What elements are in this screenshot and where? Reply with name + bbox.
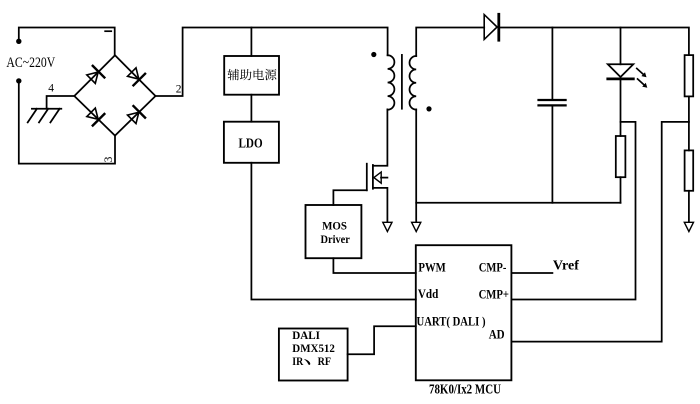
svg-text:2: 2	[176, 84, 182, 96]
diode D1 bridge upper-left	[84, 65, 105, 86]
wire MOS driver to PWM pin	[333, 258, 415, 273]
wire rail to aux supply	[250, 28, 252, 57]
bridge rectifier diamond	[74, 55, 155, 135]
svg-text:MOS: MOS	[322, 220, 347, 232]
wire rail to LED	[620, 28, 622, 65]
svg-text:3: 3	[103, 156, 115, 162]
diode D4 bridge lower-right	[125, 105, 146, 126]
wire CMP- to Vref	[511, 272, 552, 274]
transistor Q1 channel line	[372, 165, 374, 189]
svg-text:UART( DALI ): UART( DALI )	[417, 314, 486, 328]
svg-text:IR: IR	[292, 356, 304, 368]
svg-text:Vdd: Vdd	[418, 287, 438, 301]
wire R2 to gnd rail	[620, 177, 622, 203]
wire secondary top to output diode	[416, 28, 484, 57]
MCU box U1	[416, 245, 512, 380]
wire AC bottom to bridge pin 3	[19, 81, 115, 164]
resistor R3 (divider top)	[685, 55, 694, 96]
svg-text:Vref: Vref	[553, 258, 579, 273]
node AC terminal bottom	[16, 78, 21, 83]
ground (MOSFET source)	[383, 222, 392, 231]
svg-text:RF: RF	[318, 356, 331, 368]
MOS driver box U3	[306, 205, 362, 258]
DALI interface box	[279, 329, 348, 381]
svg-text:PWM: PWM	[418, 260, 445, 274]
svg-text:DMX512: DMX512	[292, 343, 335, 355]
LDO box U2	[224, 122, 279, 163]
wire gate to MOS driver	[333, 190, 366, 205]
wire diode cathode to right rail down to R1	[499, 28, 689, 56]
wire R4 to ground	[688, 191, 690, 223]
svg-text:LDO: LDO	[239, 136, 263, 151]
wire R3 to R4	[688, 96, 690, 150]
svg-text:CMP-: CMP-	[479, 260, 507, 274]
LED D6	[608, 64, 634, 77]
wire LDO to Vdd pin	[251, 163, 415, 300]
transistor Q1 gate line	[366, 164, 368, 191]
wire capacitor to gnd rail	[551, 106, 553, 203]
earth ground	[28, 109, 62, 123]
wire UART to DALI box	[348, 326, 416, 354]
LED light arrows	[637, 69, 644, 85]
transistor Q1 source to ground	[373, 188, 388, 222]
diode D2 bridge upper-right	[125, 65, 146, 86]
wire aux supply to LDO	[250, 95, 252, 122]
aux power supply box	[224, 56, 279, 95]
node secondary polarity dot	[426, 106, 431, 111]
wire bridge pin 2 to top rail and transformer primary	[156, 28, 388, 97]
node primary polarity dot	[371, 52, 376, 57]
transformer primary winding	[388, 55, 395, 109]
transistor Q1 body arrow	[381, 177, 387, 179]
transistor Q1 drain to primary	[373, 109, 388, 165]
wire secondary bottom to gnd rail	[415, 109, 417, 222]
svg-text:AC~220V: AC~220V	[6, 55, 55, 71]
label aux power supply (CJK)	[228, 69, 277, 81]
ground (secondary return)	[412, 222, 421, 231]
node AC terminal top	[16, 39, 21, 44]
pin label 1 (rotated, shows as dash)	[104, 30, 112, 32]
ground (divider)	[684, 222, 693, 231]
capacitor C1	[539, 100, 566, 105]
secondary ground rail	[416, 202, 620, 204]
svg-text:78K0/Ix2 MCU: 78K0/Ix2 MCU	[429, 382, 501, 397]
svg-text:AD: AD	[489, 328, 505, 342]
wire LED to resistor R2	[620, 79, 622, 136]
transformer secondary winding	[410, 56, 417, 110]
resistor R2 (LED sense)	[616, 136, 626, 177]
svg-text:CMP+: CMP+	[479, 288, 509, 302]
transformer core	[401, 55, 403, 109]
svg-text:DALI: DALI	[292, 330, 320, 342]
resistor R4 (divider bottom)	[685, 150, 694, 190]
wire bridge pin 4 to earth	[47, 96, 75, 109]
wire LED tap to CMP+ pin	[511, 122, 635, 300]
wire divider tap to AD pin	[511, 122, 689, 342]
svg-text:4: 4	[48, 82, 54, 94]
diode D5 output rectifier	[484, 15, 497, 40]
diode D3 bridge lower-left	[84, 106, 105, 127]
wire AC top to bridge pin 1	[19, 28, 115, 56]
wire rail to capacitor	[551, 28, 553, 100]
svg-text:Driver: Driver	[321, 234, 350, 246]
